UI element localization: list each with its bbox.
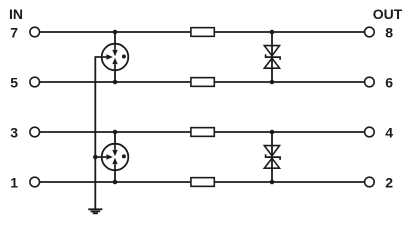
wire F1 top stub bbox=[114, 32, 116, 44]
svg-text:4: 4 bbox=[385, 124, 393, 140]
svg-text:8: 8 bbox=[385, 24, 393, 40]
gas discharge tube F1 bbox=[95, 44, 128, 71]
terminal pin 5 bbox=[30, 77, 40, 87]
terminal pin 7 bbox=[30, 27, 40, 37]
wire row 3-4 bbox=[40, 131, 365, 133]
junction F2 row 3-4 bbox=[113, 130, 118, 135]
svg-text:1: 1 bbox=[10, 174, 18, 190]
wire row 5-6 bbox=[40, 81, 365, 83]
junction D1 row 5-6 bbox=[270, 80, 275, 85]
svg-text:3: 3 bbox=[10, 124, 18, 140]
wire F2 top stub bbox=[114, 132, 116, 144]
junction F1 row 5-6 bbox=[113, 80, 118, 85]
resistor R1 bbox=[191, 28, 214, 37]
resistor R2 bbox=[191, 78, 214, 87]
svg-text:6: 6 bbox=[385, 74, 393, 90]
wire F1 bottom stub bbox=[114, 70, 116, 82]
wire row 1-2 bbox=[40, 181, 365, 183]
terminal pin 2 bbox=[365, 177, 375, 187]
terminal pin 1 bbox=[30, 177, 40, 187]
svg-text:7: 7 bbox=[10, 24, 18, 40]
resistor R4 bbox=[191, 178, 214, 187]
wire F2 bottom stub bbox=[114, 170, 116, 182]
svg-text:2: 2 bbox=[385, 174, 393, 190]
wire TVS branch D2 (row 3-4 to row 1-2) bbox=[271, 132, 273, 182]
svg-text:IN: IN bbox=[9, 6, 23, 22]
junction D2 row 3-4 bbox=[270, 130, 275, 135]
terminal pin 6 bbox=[365, 77, 375, 87]
wire TVS branch D1 (row 7-8 to row 5-6) bbox=[271, 32, 273, 82]
junction D1 row 7-8 bbox=[270, 30, 275, 35]
terminal pin 3 bbox=[30, 127, 40, 137]
terminal pin 4 bbox=[365, 127, 375, 137]
resistor R3 bbox=[191, 128, 214, 137]
junction F2 row 1-2 bbox=[113, 180, 118, 185]
svg-text:5: 5 bbox=[10, 74, 18, 90]
terminal pin 8 bbox=[365, 27, 375, 37]
ground bbox=[88, 209, 102, 213]
junction ground bus / F2 bbox=[93, 155, 98, 160]
junction F1 row 7-8 bbox=[113, 30, 118, 35]
gas discharge tube F2 bbox=[95, 144, 128, 171]
svg-text:OUT: OUT bbox=[373, 6, 403, 22]
suppressor diode D1 (bidirectional) bbox=[264, 46, 280, 69]
junction D2 row 1-2 bbox=[270, 180, 275, 185]
suppressor diode D2 (bidirectional) bbox=[264, 146, 280, 169]
wire ground bus bbox=[94, 56, 96, 209]
wire row 7-8 bbox=[40, 31, 365, 33]
